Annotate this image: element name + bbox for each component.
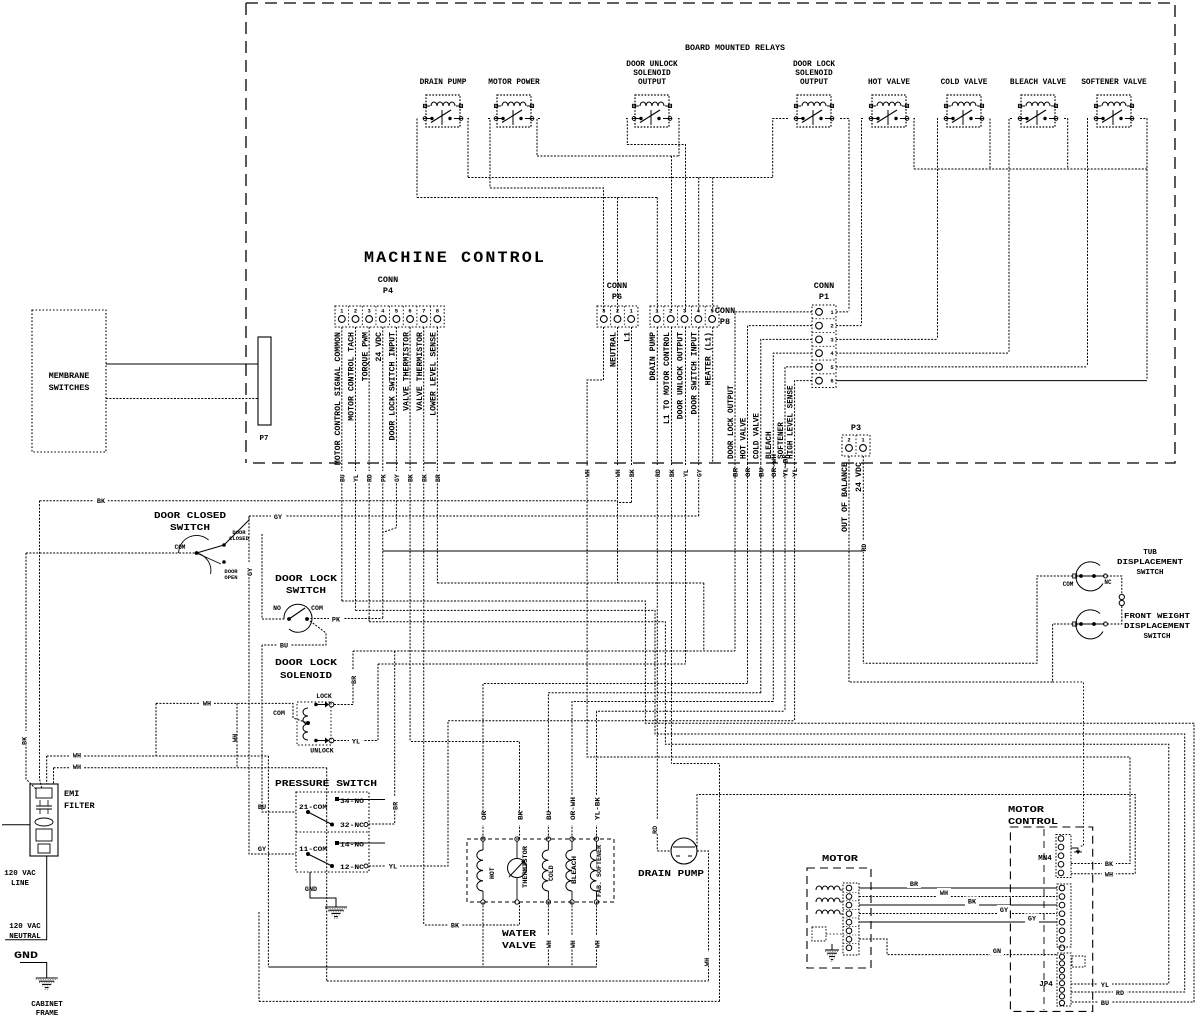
label P4 wire color RD — [366, 471, 373, 483]
wire K3 right drop — [678, 119, 679, 157]
connector MC motor input — [1057, 884, 1071, 951]
relay K4 DOOR LOCK SOLENOID OUTPUT — [794, 95, 834, 127]
svg-text:BU: BU — [339, 474, 346, 482]
svg-text:COM: COM — [175, 544, 186, 551]
label CABINET FRAME — [31, 1001, 63, 1018]
label P1 wire color YL-BK — [782, 466, 789, 498]
label valve feed color BU — [545, 812, 552, 825]
svg-text:OUTPUT: OUTPUT — [800, 79, 828, 87]
wire WH from drain pump — [697, 851, 709, 980]
wire P1 pin1 right to K4 — [836, 311, 849, 313]
svg-text:GY: GY — [1000, 907, 1009, 915]
wire membrane to P7 lower — [106, 398, 258, 400]
wire P1 pin5 left — [785, 367, 812, 463]
wire softener return WH — [596, 902, 598, 967]
label P4 wire color GY — [393, 471, 400, 483]
svg-text:WH: WH — [232, 734, 240, 742]
svg-text:BU: BU — [1101, 1000, 1109, 1008]
wire WH riser2 into EMI — [53, 768, 55, 784]
wire P4 pin7 BK down — [423, 327, 425, 925]
svg-text:GY: GY — [247, 567, 255, 576]
svg-text:FILTER: FILTER — [64, 801, 96, 811]
label DOOR CLOSED SWITCH — [154, 510, 226, 533]
label valve feed color YL-BK — [593, 796, 600, 825]
pressure switch internals — [296, 797, 385, 868]
wire solenoid UNLOCK YL — [334, 664, 378, 741]
label EMI FILTER — [64, 789, 96, 811]
svg-text:P7: P7 — [259, 435, 268, 443]
wire motor GY2 — [859, 921, 1057, 923]
svg-text:BR: BR — [393, 801, 401, 810]
wire WH riser into EMI — [46, 756, 48, 784]
svg-text:MOTOR POWER: MOTOR POWER — [488, 79, 540, 87]
wire K1 right to door line — [468, 119, 469, 178]
label wire color YL at P8 pin3 — [682, 466, 689, 478]
label wire color WH — [568, 936, 575, 949]
wire P1 pin1 left — [735, 312, 812, 463]
wire K2 right to L1 rail — [537, 119, 540, 157]
label P4 wire color PK — [379, 471, 386, 483]
wire BR down to lock line — [734, 463, 736, 651]
wire BK L1 riser — [40, 501, 43, 789]
wire K8 right to bus end — [1140, 119, 1147, 379]
svg-text:DOOR CLOSED: DOOR CLOSED — [154, 510, 226, 521]
wire K1 left to neutral rail — [416, 119, 418, 198]
label P4 wire color BR — [434, 471, 441, 483]
svg-text:COM: COM — [273, 710, 285, 717]
svg-text:MEMBRANE: MEMBRANE — [49, 371, 90, 381]
svg-text:DISPLACEMENT: DISPLACEMENT — [1124, 623, 1191, 631]
bleach valve solenoid — [566, 837, 574, 904]
svg-text:BR: BR — [351, 675, 359, 684]
label K4 DOOR LOCK SOLENOID OUTPUT — [793, 61, 835, 87]
label K5 HOT VALVE — [868, 79, 910, 87]
wire WH neutral bus2 y981 — [327, 980, 709, 982]
wire BR sense line y583 — [437, 582, 703, 584]
svg-text:120 VAC: 120 VAC — [4, 870, 36, 878]
wire door switch COM from EMI BK — [26, 552, 197, 554]
relay K6 COLD VALVE — [944, 95, 984, 127]
label wire color WH — [1102, 867, 1116, 876]
connector CONN P1 — [812, 305, 836, 388]
label DOOR LOCK SOLENOID — [275, 657, 337, 681]
wire P4 pin4 PK down — [382, 327, 384, 619]
wire door lock switch COM to BU — [262, 621, 326, 645]
wire solenoid LOCK BR — [334, 651, 353, 705]
wire tub NC to connector — [1107, 576, 1122, 594]
svg-text:DOOR LOCK: DOOR LOCK — [793, 61, 835, 69]
svg-text:COLD VALVE: COLD VALVE — [941, 79, 988, 87]
label valve feed color OR — [479, 812, 486, 825]
label motor wire WH — [937, 888, 951, 897]
svg-text:RD: RD — [367, 474, 374, 482]
wire bleach return WH — [571, 902, 573, 967]
label JP4 wire YL — [1098, 980, 1112, 989]
svg-text:P6: P6 — [612, 292, 622, 302]
wire K5 left to P1 pin2 — [862, 119, 864, 325]
motor windings — [812, 886, 843, 941]
label wire color RD at P8 pin1 — [654, 466, 661, 478]
thermistor — [508, 837, 527, 904]
wire L1 to P8 pin2 riser — [672, 764, 720, 1002]
wire door closed contact to GY line — [224, 516, 249, 545]
svg-text:GY: GY — [274, 514, 283, 522]
label P1 wire color YL — [791, 466, 798, 482]
svg-text:COLD VALVE: COLD VALVE — [753, 413, 762, 459]
wire BK thermistor feed — [410, 742, 519, 840]
label wire color GY at P8 pin4 — [695, 466, 702, 478]
label motor wire GY — [1025, 914, 1039, 923]
svg-text:BLEACH VALVE: BLEACH VALVE — [1010, 79, 1066, 87]
wire BK into EMI left — [26, 553, 36, 789]
svg-text:YL: YL — [683, 469, 690, 477]
svg-text:7: 7 — [422, 308, 425, 315]
svg-text:PK: PK — [332, 617, 341, 625]
svg-text:SOLENOID: SOLENOID — [280, 670, 332, 681]
wire P8 pin5 down — [712, 327, 714, 463]
label K6 COLD VALVE — [941, 79, 988, 87]
svg-text:RD: RD — [652, 826, 660, 834]
wire BR lock line y651 — [353, 650, 735, 652]
wire pressure switch ground lead — [310, 872, 336, 903]
svg-text:LINE: LINE — [11, 880, 30, 888]
wire YL-BK down — [784, 463, 786, 711]
wire cold return WH — [547, 902, 549, 967]
svg-text:21-COM: 21-COM — [299, 804, 327, 811]
label wire color BR at pressure switch — [390, 796, 399, 810]
svg-text:COM: COM — [311, 605, 323, 612]
wire K8 left to P1 pin5 — [1087, 119, 1090, 366]
ground below pressure switch — [325, 901, 347, 918]
svg-text:WH: WH — [615, 469, 622, 477]
wire WH bus1 riser — [267, 756, 269, 967]
svg-text:GND: GND — [14, 950, 38, 962]
wire motor BR — [859, 887, 1057, 889]
wire YL down — [794, 463, 796, 721]
label wire color BU — [277, 639, 291, 648]
svg-text:DRAIN PUMP: DRAIN PUMP — [420, 79, 467, 87]
svg-text:BR: BR — [733, 468, 740, 477]
svg-text:WATER: WATER — [502, 928, 536, 939]
wire BK L1 from EMI y500 — [40, 501, 632, 503]
wire WH neutral bus1 y967 — [268, 966, 597, 968]
wire OR down — [747, 463, 749, 684]
svg-text:DOOR SWITCH INPUT: DOOR SWITCH INPUT — [691, 332, 700, 415]
wire K7 left to P1 pin4 — [1009, 119, 1012, 352]
cold valve solenoid — [542, 837, 550, 904]
svg-text:11-COM: 11-COM — [299, 846, 327, 853]
label P1 wire color BU — [757, 466, 764, 482]
svg-text:SWITCH: SWITCH — [286, 585, 326, 596]
connector P3 — [842, 435, 870, 456]
svg-text:2: 2 — [354, 308, 357, 315]
label P4 wire color BU — [338, 471, 345, 483]
label P4 wire color BK — [420, 471, 427, 483]
wire P8 pin2 BK down — [671, 327, 673, 764]
svg-text:BU: BU — [758, 468, 765, 477]
svg-text:COLD: COLD — [548, 865, 555, 881]
wire BU down to pressure switch — [262, 645, 296, 812]
label CONN P1 — [814, 281, 834, 302]
svg-text:WH: WH — [704, 958, 712, 966]
label wire color GY vertical — [245, 562, 254, 576]
svg-text:OR: OR — [745, 468, 752, 477]
svg-text:6: 6 — [830, 378, 833, 385]
svg-text:SOLENOID: SOLENOID — [633, 70, 671, 78]
hot valve solenoid — [477, 837, 485, 904]
wire P3 pin2 down to front sw — [848, 456, 850, 682]
wire valve L1 bus y169 — [914, 168, 1147, 170]
connector CONN P4 — [335, 306, 444, 327]
wire OR hot feed — [483, 684, 748, 840]
label wire color BK — [1102, 857, 1116, 866]
wire P1 pin3 left — [761, 339, 812, 463]
label wire color WH vertical — [232, 728, 241, 742]
label FRONT WEIGHT DISPLACEMENT SWITCH — [1124, 613, 1191, 641]
wire P6 pin3 down jog — [587, 327, 603, 583]
svg-text:NO: NO — [273, 605, 281, 612]
svg-text:L1 TO MOTOR CONTROL: L1 TO MOTOR CONTROL — [663, 332, 672, 424]
svg-text:HEATER (L1): HEATER (L1) — [704, 332, 713, 385]
label JP4 wire RD — [1113, 988, 1127, 997]
wire 12-NC YL to high level — [369, 721, 795, 866]
svg-text:OUTPUT: OUTPUT — [638, 79, 666, 87]
speed sensor arrow — [1071, 848, 1082, 854]
svg-text:HOT VALVE: HOT VALVE — [739, 417, 748, 459]
wire P3 pin1 down to tub sw — [862, 456, 864, 663]
svg-text:HOT VALVE: HOT VALVE — [868, 79, 910, 87]
wire K6 right drop — [989, 119, 991, 170]
svg-text:HOT: HOT — [489, 867, 496, 879]
label TUB DISPLACEMENT SWITCH — [1117, 549, 1184, 577]
label K3 DOOR UNLOCK SOLENOID OUTPUT — [626, 61, 678, 87]
wire tub COM to 24VDC — [863, 576, 1072, 663]
label DOOR CLOSED contact — [229, 529, 250, 542]
label MEMBRANE SWITCHES — [49, 371, 90, 393]
svg-text:YL-BK: YL-BK — [783, 454, 790, 477]
svg-text:DOOR LOCK OUTPUT: DOOR LOCK OUTPUT — [727, 385, 736, 459]
wire motor GY — [859, 913, 1057, 915]
label P1 wire color OR-WH — [770, 466, 777, 498]
label wire color WH at P6 pin3 — [584, 466, 591, 478]
svg-text:P3: P3 — [851, 423, 861, 433]
wire OOB into motor control — [1053, 682, 1084, 846]
label P4 wire color BK — [407, 471, 414, 483]
wire P1 pin2 right to K5 — [836, 325, 862, 327]
label JP4 wire BU — [1098, 998, 1112, 1007]
label wire color YL — [349, 735, 363, 744]
svg-text:UNLOCK: UNLOCK — [310, 748, 334, 755]
water valve box — [467, 839, 614, 902]
wire BU common run — [342, 601, 1194, 1002]
label wire color RD vertical — [652, 820, 661, 834]
wire K2 left drop — [488, 119, 490, 189]
svg-text:24 VDC: 24 VDC — [855, 462, 864, 492]
label valve feed color BK — [516, 812, 523, 825]
svg-text:EMI: EMI — [64, 789, 79, 799]
wire P6 pin1 BK stub — [631, 327, 633, 503]
svg-text:24 VDC: 24 VDC — [375, 332, 384, 362]
svg-text:L1: L1 — [624, 332, 633, 342]
label CONN P6 — [607, 281, 627, 302]
motor connector — [843, 883, 859, 955]
wire RD to drain pump — [657, 850, 671, 852]
wire K3 left to P8 pin3 — [626, 119, 686, 313]
svg-text:P4: P4 — [383, 286, 393, 296]
relay K3 DOOR UNLOCK SOLENOID OUTPUT — [632, 95, 672, 127]
svg-text:SOFTENER: SOFTENER — [777, 422, 786, 459]
wire neutral rail y197 — [417, 197, 657, 199]
svg-text:RD: RD — [861, 544, 868, 552]
svg-text:JP4: JP4 — [1039, 981, 1053, 989]
svg-text:DRAIN PUMP: DRAIN PUMP — [649, 332, 658, 381]
svg-text:BLEACH: BLEACH — [571, 856, 578, 884]
svg-text:NC: NC — [1104, 579, 1112, 586]
label wire color WH — [70, 749, 84, 758]
svg-text:P8: P8 — [720, 317, 730, 327]
svg-text:HIGH LEVEL SENSE: HIGH LEVEL SENSE — [786, 385, 795, 459]
wire membrane to P7 upper — [106, 363, 258, 365]
wire K4 right to P1 pin1 — [840, 119, 849, 311]
svg-text:GY: GY — [258, 846, 267, 854]
svg-text:BK: BK — [968, 899, 977, 907]
svg-text:OR-WH: OR-WH — [771, 454, 778, 477]
inline connector — [1119, 594, 1124, 605]
label wire color PK — [329, 613, 343, 622]
door closed switch — [179, 535, 226, 574]
svg-text:THERMISTOR: THERMISTOR — [522, 846, 529, 888]
relay K1 DRAIN PUMP — [423, 95, 463, 127]
svg-text:12-NC: 12-NC — [340, 864, 364, 871]
wire P6 pin2 neutral up — [617, 198, 619, 313]
label wire color WH — [545, 936, 552, 949]
svg-text:SWITCHES: SWITCHES — [49, 383, 90, 393]
wire P1 pin5 right to K8 — [836, 366, 1088, 368]
label wire color BK at P8 pin2 — [668, 466, 675, 478]
label wire color YL — [386, 860, 400, 869]
svg-text:GY: GY — [394, 474, 401, 482]
label 120 VAC LINE — [4, 870, 36, 888]
wire P8 pin1 RD down — [656, 327, 658, 851]
wire drop x703.8 — [703, 583, 705, 651]
svg-text:GN: GN — [993, 948, 1001, 956]
label wire color WH vertical — [704, 952, 713, 966]
svg-text:P1: P1 — [819, 292, 829, 302]
wire door lock switch COM PK line — [307, 618, 383, 620]
relay K7 BLEACH VALVE — [1018, 95, 1058, 127]
wire L1 bus y1001 — [259, 1000, 720, 1002]
label K8 SOFTENER VALVE — [1081, 79, 1147, 87]
label wire color BK — [94, 494, 108, 503]
svg-text:BU: BU — [546, 811, 553, 820]
softener valve solenoid — [590, 837, 598, 904]
connector JP4 — [1057, 953, 1071, 1006]
label wire color BR vertical — [349, 670, 358, 684]
label wire color WH — [200, 697, 214, 706]
connector CONN P8 — [650, 306, 719, 327]
svg-text:BK: BK — [451, 923, 460, 931]
svg-text:YL: YL — [1101, 982, 1109, 990]
wire P1 pin4 left — [773, 353, 812, 463]
wire P8 pin2 drop — [671, 156, 673, 312]
label wire color BK — [448, 919, 462, 928]
label CONN P8 — [715, 306, 735, 327]
wire solenoid COM feed — [156, 703, 308, 723]
wire front COM to out of balance — [849, 624, 1073, 682]
svg-text:SWITCH: SWITCH — [1136, 569, 1163, 577]
wire P1 pin6 right to L1 bus — [836, 380, 1147, 382]
label wire color GY — [271, 510, 285, 519]
wire WH pump top run — [697, 795, 1135, 874]
tub displacement switch — [1073, 562, 1108, 591]
wire motor WH — [859, 896, 1057, 898]
svg-text:YL: YL — [792, 468, 799, 477]
svg-text:BK: BK — [22, 736, 30, 745]
label wire color BK vertical — [21, 731, 30, 745]
connector P7 — [258, 337, 271, 425]
svg-text:CONN: CONN — [814, 281, 834, 291]
svg-text:OR-WH: OR-WH — [570, 797, 577, 820]
label CONN P4 — [378, 275, 398, 296]
svg-text:DOOR LOCK: DOOR LOCK — [275, 573, 337, 584]
EMI filter box — [30, 784, 58, 856]
svg-text:WH: WH — [73, 764, 81, 772]
svg-text:WH: WH — [940, 890, 948, 898]
label valve feed color OR-WH — [568, 796, 575, 825]
wire YL tach run — [355, 610, 1184, 992]
svg-text:YL: YL — [353, 474, 360, 482]
svg-text:CABINET: CABINET — [31, 1001, 63, 1009]
wire K6 left to P1 pin3 — [937, 119, 940, 339]
svg-text:MOTOR: MOTOR — [1008, 804, 1044, 815]
wire GY down to pressure switch — [249, 516, 296, 854]
wire thermistor return BK — [424, 902, 520, 925]
svg-text:WH: WH — [203, 701, 211, 709]
label P1 wire color BR — [732, 466, 739, 482]
svg-text:OR: OR — [481, 811, 488, 820]
svg-text:VALVE: VALVE — [502, 940, 536, 951]
svg-text:RD: RD — [655, 469, 662, 477]
wire 120VAC neutral lead — [5, 856, 47, 940]
wire WH stub — [236, 703, 238, 767]
svg-text:34-NO: 34-NO — [340, 798, 364, 805]
wire P4 pin2 YL down — [354, 327, 356, 610]
svg-text:OPEN: OPEN — [224, 574, 237, 581]
svg-text:DISPLACEMENT: DISPLACEMENT — [1117, 559, 1184, 567]
svg-text:FAB. SOFTENER: FAB. SOFTENER — [596, 845, 603, 897]
wire OR-WH down — [772, 463, 774, 702]
wire WH neutral run y757 — [587, 583, 1130, 864]
front weight displacement switch — [1073, 610, 1108, 639]
label motor wire BK — [965, 897, 979, 906]
svg-text:CLOSED: CLOSED — [229, 535, 250, 542]
wire GND lead — [20, 963, 47, 973]
svg-text:GY: GY — [696, 469, 703, 477]
pressure switch box — [296, 792, 369, 872]
svg-text:BU: BU — [280, 643, 288, 651]
label motor wire BR — [907, 879, 921, 888]
wire P4 pin3 RD down — [368, 327, 370, 622]
svg-text:WH: WH — [570, 940, 577, 948]
relay K8 SOFTENER VALVE — [1094, 95, 1134, 127]
label DOOR OPEN contact — [224, 568, 238, 581]
wire motor BK — [859, 904, 1057, 906]
wire P8 pin5 drop — [712, 178, 714, 313]
svg-text:DOOR UNLOCK OUTPUT: DOOR UNLOCK OUTPUT — [677, 332, 686, 419]
svg-text:2: 2 — [616, 308, 619, 315]
wire P4 pin5 GY down — [383, 327, 397, 532]
label 120 VAC NEUTRAL — [9, 923, 41, 941]
